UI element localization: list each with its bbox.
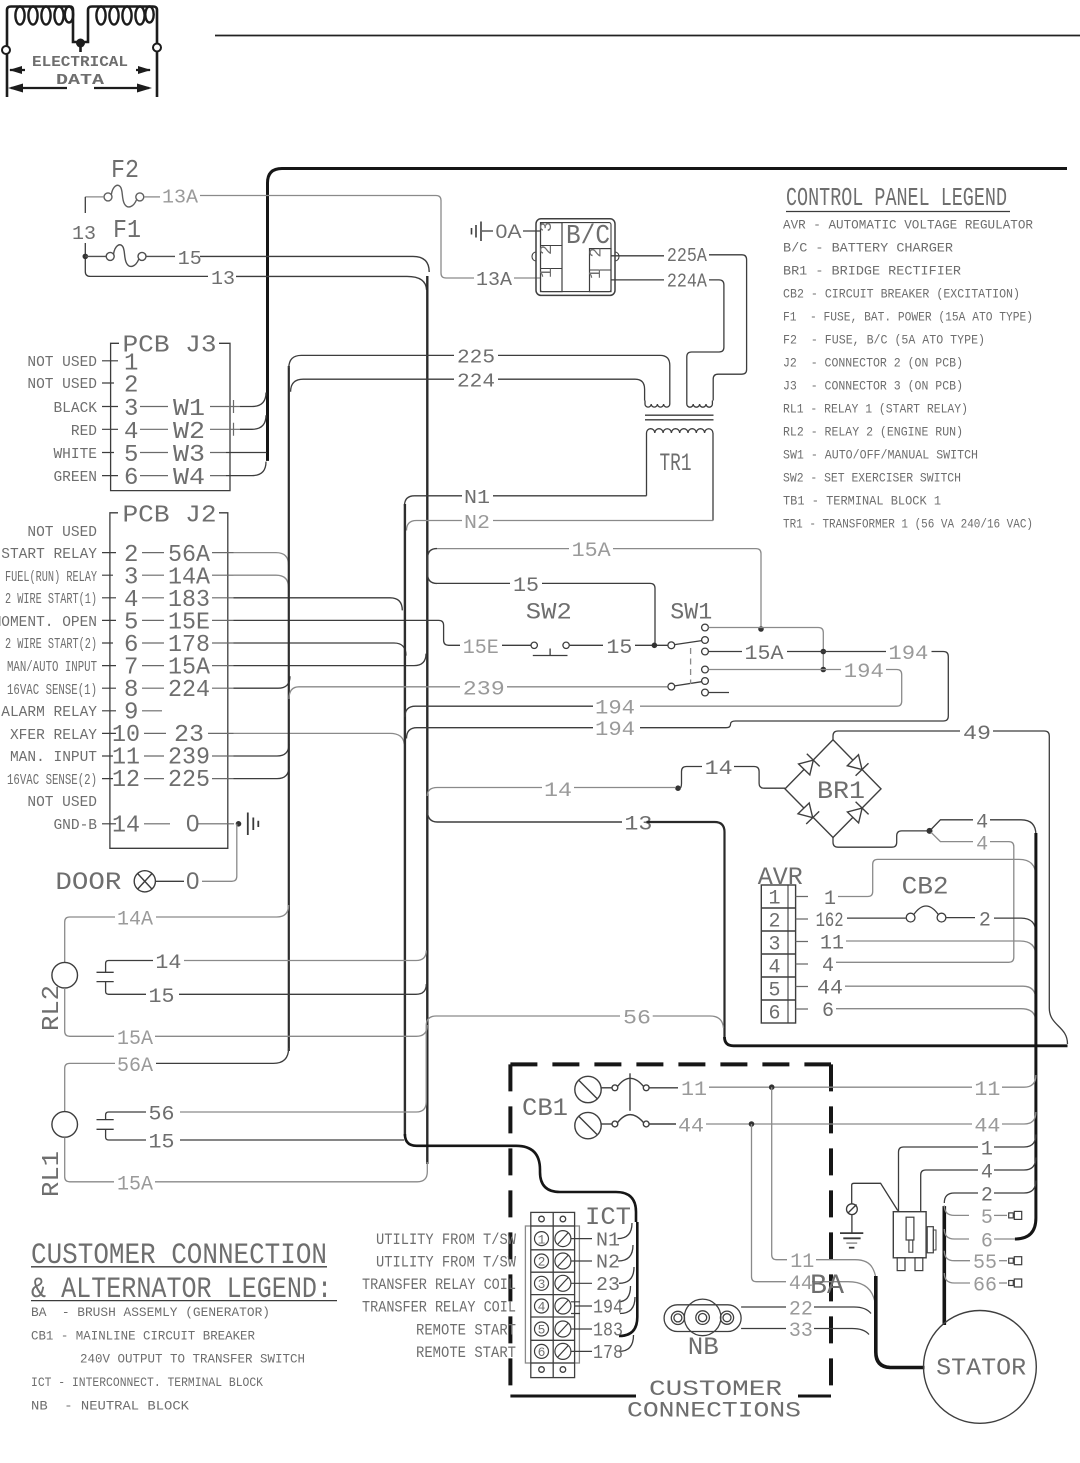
- electrical data logo: [2, 7, 161, 98]
- svg-text:4: 4: [822, 955, 834, 978]
- header rule: [215, 35, 1080, 37]
- svg-text:15A: 15A: [572, 540, 611, 563]
- control panel legend title: [783, 183, 1033, 532]
- wire 49: [833, 731, 960, 740]
- svg-text:NOT USED: NOT USED: [27, 525, 97, 541]
- svg-text:15: 15: [513, 575, 539, 598]
- svg-text:N2: N2: [596, 1252, 620, 1274]
- wire 4 lower: [931, 832, 973, 841]
- svg-text:ELECTRICAL: ELECTRICAL: [32, 54, 128, 71]
- transformer TR1: [645, 401, 714, 521]
- svg-text:15E: 15E: [463, 637, 499, 660]
- svg-text:14: 14: [155, 952, 181, 975]
- svg-text:REMOTE START: REMOTE START: [416, 1322, 516, 1340]
- svg-text:183: 183: [593, 1320, 623, 1342]
- ICT circled pins: [535, 1232, 549, 1359]
- wire W2 to bus: [240, 415, 266, 429]
- svg-text:DOOR: DOOR: [55, 868, 121, 897]
- svg-text:TR1: TR1: [660, 449, 692, 478]
- svg-text:TRANSFER RELAY COIL: TRANSFER RELAY COIL: [362, 1276, 516, 1294]
- legend rows: [31, 1305, 305, 1413]
- svg-text:2: 2: [538, 1255, 546, 1270]
- svg-text:BA: BA: [810, 1271, 844, 1302]
- svg-text:RL2: RL2: [39, 985, 66, 1031]
- svg-text:4: 4: [769, 957, 781, 980]
- wire 225 J2 up: [234, 767, 290, 779]
- svg-text:CUSTOMER CONNECTION: CUSTOMER CONNECTION: [31, 1239, 327, 1273]
- svg-text:11: 11: [974, 1079, 1000, 1102]
- svg-text:CB2 - CIRCUIT BREAKER (EXCITAT: CB2 - CIRCUIT BREAKER (EXCITATION): [783, 287, 1020, 302]
- svg-text:14A: 14A: [117, 909, 153, 932]
- wire 13 row: [427, 810, 622, 822]
- svg-text:15: 15: [149, 1132, 175, 1155]
- svg-text:4: 4: [976, 812, 988, 835]
- svg-text:15A: 15A: [117, 1174, 153, 1197]
- wire 4 upper: [931, 820, 973, 830]
- J2 pin numbers: [112, 542, 140, 840]
- svg-text:225: 225: [168, 767, 210, 794]
- svg-text:BLACK: BLACK: [53, 401, 97, 417]
- RL2 contact: [97, 961, 154, 995]
- svg-text:CB1: CB1: [522, 1094, 568, 1123]
- J2 pin dashes: [142, 553, 170, 824]
- svg-text:13: 13: [211, 268, 235, 290]
- svg-text:MOMENT. OPEN: MOMENT. OPEN: [0, 615, 97, 631]
- wire N1: [493, 495, 647, 497]
- svg-text:WHITE: WHITE: [53, 447, 97, 463]
- wire BR1 minus to 4/4: [833, 831, 927, 847]
- svg-text:NB - NEUTRAL BLOCK: NB - NEUTRAL BLOCK: [31, 1398, 189, 1413]
- svg-text:13A: 13A: [476, 269, 513, 291]
- spade terminal 55: [1009, 1257, 1022, 1265]
- svg-text:NOT USED: NOT USED: [27, 795, 97, 811]
- BR1 diode 4: [847, 808, 862, 823]
- svg-text:5: 5: [981, 1207, 993, 1230]
- wire 14A J2 to bus: [234, 575, 289, 588]
- breaker CB1 pole 2: [575, 1112, 676, 1138]
- wire bundle 13/15A vertical: [426, 276, 428, 1164]
- svg-text:DATA: DATA: [56, 72, 104, 89]
- wire 239 J2 up: [234, 744, 290, 756]
- svg-text:2 WIRE START(1): 2 WIRE START(1): [5, 592, 97, 608]
- neutral block NB: [664, 1299, 741, 1336]
- svg-text:B/C: B/C: [566, 222, 610, 252]
- legend underline: [786, 211, 1010, 213]
- svg-text:TRANSFER RELAY COIL: TRANSFER RELAY COIL: [362, 1299, 516, 1317]
- logo center junction: [73, 38, 88, 52]
- logo long double arrow: [11, 87, 149, 89]
- svg-text:12: 12: [112, 767, 140, 794]
- TR1 secondary coil A: [645, 401, 670, 408]
- svg-text:4: 4: [976, 833, 988, 856]
- wire W1 to bus: [240, 393, 266, 407]
- wire bundle N-harness vertical: [404, 504, 406, 1136]
- svg-text:225: 225: [457, 347, 495, 369]
- thick battery wire W3 bus (top): [268, 169, 1068, 461]
- svg-text:STATOR: STATOR: [936, 1356, 1026, 1383]
- brush assembly BA: [893, 1212, 936, 1271]
- svg-text:AVR - AUTOMATIC VOLTAGE REGULA: AVR - AUTOMATIC VOLTAGE REGULATOR: [783, 218, 1033, 233]
- svg-text:194: 194: [595, 698, 635, 721]
- logo left terminal: [6, 50, 9, 97]
- harness thick end: [619, 1222, 637, 1336]
- node GND-B junction: [236, 821, 242, 827]
- wire N2: [493, 520, 713, 522]
- svg-text:0: 0: [186, 868, 199, 895]
- svg-text:15A: 15A: [745, 643, 784, 666]
- svg-text:16VAC SENSE(2): 16VAC SENSE(2): [7, 773, 97, 789]
- wire 224A: [611, 279, 664, 281]
- svg-text:N1: N1: [596, 1229, 620, 1251]
- svg-text:5: 5: [769, 980, 781, 1003]
- svg-text:SW1: SW1: [670, 600, 712, 626]
- TR1 core: [645, 415, 714, 420]
- svg-text:RL1 - RELAY 1 (START RELAY): RL1 - RELAY 1 (START RELAY): [783, 402, 968, 417]
- svg-text:SW2 - SET EXERCISER SWITCH: SW2 - SET EXERCISER SWITCH: [783, 471, 961, 486]
- BR1 diode 1: [799, 760, 814, 775]
- logo right terminal: [156, 47, 159, 97]
- svg-text:194: 194: [888, 643, 928, 666]
- svg-text:2: 2: [981, 1185, 993, 1208]
- ground GND-B: [248, 813, 258, 836]
- wire W3 to bus: [226, 452, 267, 454]
- svg-text:NOT USED: NOT USED: [27, 377, 97, 393]
- bus thick stator leads left: [876, 1276, 925, 1368]
- svg-text:RED: RED: [71, 424, 97, 440]
- J2 pin ticks: [102, 553, 116, 824]
- RL1 contact: [97, 1112, 147, 1140]
- svg-text:N1: N1: [464, 487, 490, 509]
- TR1 primary coil: [647, 429, 713, 433]
- svg-text:1: 1: [538, 1232, 546, 1247]
- svg-text:6: 6: [822, 1000, 834, 1023]
- svg-text:TB1 - TERMINAL BLOCK 1: TB1 - TERMINAL BLOCK 1: [783, 494, 941, 509]
- svg-text:ICT: ICT: [585, 1203, 631, 1232]
- BR1 diode 2: [847, 755, 862, 770]
- wire 239 bus to SW1: [289, 687, 460, 699]
- fuse F2: [104, 185, 144, 207]
- svg-text:224A: 224A: [667, 271, 708, 293]
- connector PCB J2: [110, 513, 228, 849]
- svg-text:B/C - BATTERY CHARGER: B/C - BATTERY CHARGER: [783, 241, 953, 256]
- svg-text:6: 6: [769, 1003, 781, 1026]
- svg-text:44: 44: [678, 1116, 704, 1139]
- wire 44 branch to BA: [752, 1124, 787, 1282]
- svg-text:CONTROL PANEL LEGEND: CONTROL PANEL LEGEND: [786, 183, 1007, 213]
- svg-text:15: 15: [606, 637, 632, 660]
- switch SW1: [668, 624, 729, 696]
- wire 6: [944, 1229, 969, 1239]
- J2 labels: [0, 525, 97, 834]
- wire 11 branch to BA: [772, 1087, 787, 1260]
- svg-text:1: 1: [981, 1139, 993, 1162]
- svg-text:1: 1: [769, 888, 781, 911]
- svg-text:1: 1: [824, 888, 836, 911]
- J3 pin ticks left: [102, 361, 118, 476]
- customer connections dashed box: [510, 1064, 831, 1396]
- svg-text:23: 23: [596, 1274, 620, 1296]
- svg-text:2 WIRE START(2): 2 WIRE START(2): [5, 637, 97, 653]
- wire 0A: [482, 230, 493, 232]
- svg-text:FUEL(RUN) RELAY: FUEL(RUN) RELAY: [5, 570, 97, 586]
- terminal block ICT: [525, 1212, 579, 1377]
- wire 13A from F2 to B/C pin1: [85, 196, 540, 279]
- svg-text:BR1: BR1: [817, 777, 865, 806]
- wire 225A: [611, 255, 664, 257]
- svg-text:CB1 - MAINLINE CIRCUIT BREAKER: CB1 - MAINLINE CIRCUIT BREAKER: [31, 1328, 255, 1343]
- AVR pin numbers: [769, 888, 781, 1026]
- svg-text:F2: F2: [111, 155, 139, 185]
- BR1 diode 3: [798, 803, 813, 818]
- svg-text:13: 13: [624, 814, 652, 837]
- J2 wire labels: [168, 542, 211, 838]
- svg-text:49: 49: [963, 723, 991, 746]
- switch SW2: [502, 642, 603, 655]
- wire 15 turning down: [200, 256, 429, 272]
- node 15A/SW1: [758, 626, 764, 632]
- J2 right edge ticks: [198, 553, 234, 824]
- svg-text:15: 15: [178, 248, 202, 270]
- node 4/4: [927, 828, 933, 834]
- wire 5: [944, 1206, 969, 1216]
- svg-text:11: 11: [820, 933, 844, 956]
- svg-text:194: 194: [595, 719, 635, 742]
- logo right coil: [88, 7, 157, 48]
- wire 56 row: [426, 1016, 620, 1102]
- svg-text:3: 3: [538, 222, 557, 232]
- J3 pin stubs: [140, 400, 240, 476]
- wire 15A J2 to bus: [234, 654, 427, 666]
- J3 wire names W1-W4: [173, 396, 205, 492]
- svg-text:56: 56: [623, 1008, 651, 1031]
- svg-text:MAN/AUTO INPUT: MAN/AUTO INPUT: [7, 660, 97, 676]
- svg-text:J2 - CONNECTOR 2 (ON PCB): J2 - CONNECTOR 2 (ON PCB): [783, 356, 963, 371]
- node F1 junction: [83, 254, 89, 260]
- J3 labels: [27, 355, 97, 486]
- wire 194 row2: [708, 669, 841, 671]
- svg-text:N2: N2: [464, 512, 490, 534]
- svg-text:6: 6: [538, 1345, 546, 1360]
- svg-text:MAN. INPUT: MAN. INPUT: [10, 750, 97, 766]
- wire 66: [944, 1273, 970, 1283]
- svg-text:225A: 225A: [667, 245, 708, 267]
- svg-text:33: 33: [789, 1320, 813, 1343]
- svg-text:162: 162: [816, 910, 844, 933]
- wire 224 J2 up: [234, 676, 291, 688]
- wire 0 DOOR branch: [202, 824, 237, 882]
- wire 4 to BA: [994, 1158, 1036, 1171]
- svg-text:66: 66: [973, 1275, 997, 1298]
- bus thick stator leads right: [942, 1206, 946, 1325]
- svg-text:2: 2: [538, 245, 557, 255]
- svg-text:5: 5: [538, 1323, 546, 1338]
- wire 225 bus to TR1: [289, 355, 454, 368]
- wire 183 J2 down: [234, 598, 403, 611]
- svg-text:3: 3: [769, 934, 781, 957]
- svg-text:56: 56: [149, 1104, 175, 1127]
- svg-text:240V OUTPUT TO TRANSFER SWITCH: 240V OUTPUT TO TRANSFER SWITCH: [80, 1352, 305, 1367]
- TR1 secondary coil B: [687, 401, 713, 408]
- svg-text:0A: 0A: [496, 222, 522, 243]
- wire 14 row: [427, 788, 542, 797]
- svg-text:F1: F1: [113, 215, 141, 245]
- svg-text:NB: NB: [688, 1333, 719, 1362]
- logo short arrows: [10, 69, 150, 71]
- ground (0A chassis): [472, 222, 482, 242]
- svg-text:2: 2: [769, 911, 781, 934]
- wire 1 to BA: [994, 1135, 1036, 1148]
- AVR pin stubs: [796, 897, 808, 1010]
- ICT screws: [555, 1231, 571, 1360]
- svg-text:ICT - INTERCONNECT. TERMINAL B: ICT - INTERCONNECT. TERMINAL BLOCK: [31, 1375, 263, 1390]
- svg-text:14: 14: [705, 758, 733, 781]
- relay RL1 coil: [52, 1112, 78, 1138]
- harness fan to ICT rows: [618, 1223, 636, 1351]
- wire 15A (RL1): [65, 1137, 114, 1181]
- svg-text:3: 3: [538, 1277, 546, 1292]
- wire 56A bus to RL1: [156, 1048, 289, 1063]
- svg-text:14: 14: [544, 780, 572, 803]
- svg-text:1: 1: [538, 268, 557, 278]
- wire 23 J2 down: [234, 733, 405, 744]
- wire SW1 c1 to 15A row: [708, 628, 823, 669]
- connector PCB J3: [111, 343, 230, 490]
- stator: [924, 1311, 1037, 1424]
- svg-text:0: 0: [186, 811, 199, 838]
- svg-text:1: 1: [587, 269, 606, 279]
- svg-text:44: 44: [817, 978, 843, 1001]
- bus thick right (to stator leads): [1015, 833, 1036, 1239]
- wire 15E J2 to SW2: [234, 620, 461, 645]
- svg-text:REMOTE START: REMOTE START: [416, 1344, 516, 1362]
- svg-text:13: 13: [72, 223, 96, 245]
- svg-text:UTILITY FROM T/SW: UTILITY FROM T/SW: [376, 1254, 516, 1272]
- ground (generator frame): [840, 1183, 898, 1247]
- relay RL2 coil: [52, 962, 78, 988]
- svg-text:START RELAY: START RELAY: [1, 547, 97, 563]
- svg-text:14: 14: [112, 813, 140, 840]
- svg-text:XFER RELAY: XFER RELAY: [10, 728, 97, 744]
- wire 2: [994, 1181, 1036, 1194]
- svg-text:194: 194: [844, 661, 884, 684]
- breaker CB1 pole 1: [575, 1073, 678, 1111]
- svg-text:J3 - CONNECTOR 3 (ON PCB): J3 - CONNECTOR 3 (ON PCB): [783, 379, 963, 394]
- harness to ICT (thick): [405, 1134, 636, 1222]
- svg-text:239: 239: [463, 679, 505, 702]
- svg-text:224: 224: [457, 371, 495, 393]
- svg-text:W4: W4: [173, 465, 205, 492]
- svg-text:SW2: SW2: [526, 600, 572, 626]
- wire 56A J2 to bus: [234, 553, 289, 566]
- ICT right wires + labels: [571, 1239, 592, 1352]
- battery charger B/C: [532, 219, 619, 296]
- svg-text:224: 224: [168, 677, 210, 704]
- ICT left labels: [362, 1231, 516, 1362]
- svg-text:178: 178: [593, 1342, 623, 1364]
- wire bundle 225/224/56A/14A vertical: [288, 366, 290, 1051]
- svg-text:194: 194: [593, 1297, 623, 1319]
- svg-text:& ALTERNATOR LEGEND:: & ALTERNATOR LEGEND:: [31, 1273, 332, 1307]
- wire 13 (battery to F1/F2 junction): [84, 197, 86, 213]
- wire 15A/194 row: [708, 651, 742, 653]
- J3 pin numbers: [124, 351, 138, 493]
- bridge rectifier BR1: [785, 740, 881, 838]
- wire 15 to SW2: [437, 582, 510, 584]
- svg-text:RL2 - RELAY 2 (ENGINE RUN): RL2 - RELAY 2 (ENGINE RUN): [783, 425, 963, 440]
- svg-text:NOT USED: NOT USED: [27, 355, 97, 371]
- svg-text:ALARM RELAY: ALARM RELAY: [1, 705, 97, 721]
- svg-text:GREEN: GREEN: [53, 470, 97, 486]
- svg-text:F1 - FUSE, BAT. POWER (15A AT: F1 - FUSE, BAT. POWER (15A ATO TYPE): [783, 310, 1033, 325]
- svg-text:GND-B: GND-B: [53, 818, 97, 834]
- svg-text:15A: 15A: [117, 1028, 153, 1051]
- wire W4 to bus: [226, 462, 266, 476]
- svg-text:TR1 - TRANSFORMER 1 (56 VA 240: TR1 - TRANSFORMER 1 (56 VA 240/16 VAC): [783, 517, 1033, 532]
- wire 55: [944, 1251, 970, 1261]
- svg-text:44: 44: [974, 1116, 1000, 1139]
- svg-text:11: 11: [681, 1079, 707, 1102]
- regulator AVR connector: [761, 885, 795, 1023]
- wire 13 turning down: [236, 276, 427, 290]
- svg-text:4: 4: [981, 1162, 993, 1185]
- svg-text:6: 6: [124, 465, 138, 492]
- wire 14A bus to RL2: [156, 905, 289, 917]
- svg-text:RL1: RL1: [39, 1151, 66, 1197]
- wire 224 bus to TR1: [291, 379, 454, 392]
- svg-text:UTILITY FROM T/SW: UTILITY FROM T/SW: [376, 1231, 516, 1249]
- node 14/BR1: [675, 785, 681, 791]
- wire 22: [741, 1306, 786, 1308]
- svg-text:2: 2: [979, 910, 991, 933]
- svg-text:4: 4: [538, 1300, 546, 1315]
- wire 15A U-turn to SW1: [428, 549, 437, 584]
- wire 15A (RL2): [65, 988, 114, 1036]
- svg-text:SW1 - AUTO/OFF/MANUAL SWITCH: SW1 - AUTO/OFF/MANUAL SWITCH: [783, 448, 978, 463]
- svg-text:16VAC SENSE(1): 16VAC SENSE(1): [7, 683, 97, 699]
- wire 15A to SW1: [437, 548, 569, 550]
- fuse F1: [85, 245, 175, 267]
- svg-text:55: 55: [973, 1252, 997, 1275]
- svg-text:13A: 13A: [162, 187, 199, 209]
- wire 14 to BR1: [680, 767, 703, 789]
- svg-text:CB2: CB2: [902, 873, 949, 902]
- node SW1 pole1: [652, 643, 658, 649]
- svg-text:CONNECTIONS: CONNECTIONS: [627, 1399, 801, 1424]
- svg-text:6: 6: [981, 1231, 993, 1254]
- spade terminal 66: [1009, 1279, 1022, 1287]
- wire 178 J2 down: [234, 643, 407, 656]
- B/C connector J1 (pins 1-3): [541, 223, 563, 292]
- wire 13 thick bottom run: [725, 1037, 1068, 1046]
- svg-text:BR1 - BRIDGE RECTIFIER: BR1 - BRIDGE RECTIFIER: [783, 264, 961, 279]
- logo left coil: [7, 7, 73, 51]
- svg-text:F2 - FUSE, B/C (5A ATO TYPE): F2 - FUSE, B/C (5A ATO TYPE): [783, 333, 985, 348]
- wire 33: [741, 1328, 786, 1330]
- spade terminal 5: [1009, 1211, 1022, 1219]
- breaker CB2: [906, 906, 975, 922]
- svg-text:BA - BRUSH ASSEMLY (GENERATOR: BA - BRUSH ASSEMLY (GENERATOR): [31, 1305, 270, 1320]
- node SW1 c1/15A: [821, 649, 827, 655]
- svg-text:56A: 56A: [117, 1055, 153, 1078]
- B/C connector J2 (pins 1-2): [590, 249, 612, 292]
- svg-text:15: 15: [149, 986, 175, 1009]
- svg-text:PCB J2: PCB J2: [123, 503, 217, 530]
